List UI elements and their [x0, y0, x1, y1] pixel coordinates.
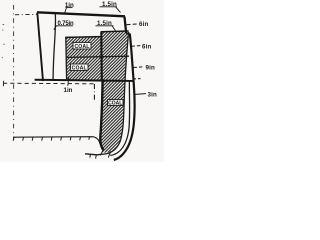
stray dashes right of bottom line	[133, 78, 141, 80]
scan speckles	[2, 24, 5, 58]
left coal box top line	[65, 36, 101, 39]
hatch fill coal column (bottom strip)	[100, 81, 125, 153]
dim 9in	[134, 65, 156, 72]
label COAL 2	[71, 64, 89, 72]
step at right	[126, 32, 130, 34]
svg-text:1in: 1in	[64, 87, 73, 94]
label COAL 3	[108, 100, 124, 107]
svg-text:3in: 3in	[148, 92, 158, 99]
middle shell curve B	[110, 81, 129, 156]
radial cut stroke 1	[100, 149, 103, 156]
inner floor line with ticks	[13, 137, 100, 144]
outer floor ticks	[90, 154, 97, 158]
floor ticks	[13, 137, 89, 141]
start tick of dashed line	[2, 81, 4, 86]
dashed horizontal line	[3, 82, 94, 85]
dim 1in top	[65, 2, 74, 12]
dim 1.5in lower	[96, 20, 116, 31]
horizontal centerline top-left	[15, 13, 37, 15]
inner slant wall line	[53, 14, 55, 81]
hatch fill right coal box	[101, 31, 128, 80]
dim 6in second	[132, 44, 152, 51]
radial cut stroke 2	[108, 151, 111, 157]
top plate line	[37, 12, 125, 16]
divider line	[66, 56, 129, 57]
dim 0.75in	[54, 21, 74, 30]
dim 1.5in upper	[100, 1, 121, 12]
hatch fill coal box 2 (lower left band)	[66, 57, 101, 81]
dim 1in bottom	[64, 77, 73, 94]
outer slant wall line	[37, 13, 43, 82]
inner shell curve A	[85, 32, 129, 155]
right coal box top line	[101, 30, 129, 33]
svg-text:6in: 6in	[142, 44, 152, 51]
right edge upper	[125, 17, 127, 33]
svg-text:6in: 6in	[139, 21, 149, 28]
svg-text:COAL: COAL	[74, 44, 90, 50]
dim 3in	[135, 92, 157, 99]
bottom line of wall assembly	[35, 80, 134, 81]
svg-text:9in: 9in	[146, 65, 156, 72]
vertical divider / column left edge	[100, 32, 103, 82]
dim 6in first	[127, 21, 149, 28]
left edge of coal boxes	[65, 37, 68, 80]
outer curve	[114, 34, 135, 160]
label COAL 1	[73, 43, 91, 51]
dashed vertical stub	[93, 84, 95, 102]
hatch fill coal box 1 (upper left band)	[66, 37, 101, 58]
vertical centerline	[13, 5, 15, 140]
svg-text:COAL: COAL	[108, 101, 122, 107]
column left edge lower	[100, 81, 103, 150]
svg-text:COAL: COAL	[72, 66, 88, 72]
